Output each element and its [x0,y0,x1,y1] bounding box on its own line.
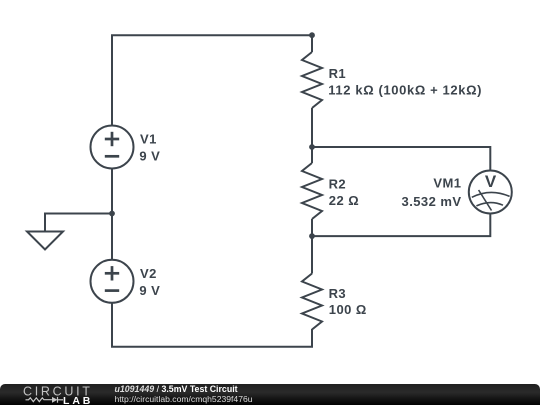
wire node B to R2 [311,147,313,163]
wire bottom [112,303,312,347]
footer info text [115,384,253,405]
node C junction [309,233,315,239]
wire R1 to node B [311,108,313,147]
node B junction [309,144,315,150]
resistor R2 [302,163,322,219]
svg-text:9 V: 9 V [139,283,160,298]
svg-text:LAB: LAB [63,395,93,405]
svg-text:112 kΩ (100kΩ + 12kΩ): 112 kΩ (100kΩ + 12kΩ) [328,82,482,97]
CircuitLab logo [0,384,112,405]
wire top [112,35,312,126]
voltage source V1 [91,126,134,169]
wire ground lead [45,214,112,232]
svg-text:V2: V2 [140,266,157,281]
voltage source V2 [91,260,134,303]
wire VM1 bottom to node C [312,214,490,237]
node A junction [109,211,115,217]
wire node B to VM1 top [312,147,490,171]
ground GND [27,232,63,250]
resistor R3 [302,274,322,330]
voltmeter VM1 [469,171,512,214]
svg-text:VM1: VM1 [433,176,461,191]
wire node A to V2 [111,214,113,261]
footer bar [0,384,540,405]
svg-text:R1: R1 [329,66,347,81]
svg-text:22 Ω: 22 Ω [329,193,359,208]
node top-right junction [309,32,315,38]
logo diode [52,397,58,403]
svg-text:9 V: 9 V [139,149,160,164]
wire node C to R3 [311,236,313,273]
svg-text:V1: V1 [140,132,157,147]
svg-text:R3: R3 [329,286,347,301]
wire V1 to node A [111,168,113,214]
logo resistor zigzag [26,397,64,403]
svg-text:V: V [485,172,497,191]
svg-text:100 Ω: 100 Ω [329,302,367,317]
resistor R1 [302,52,322,108]
wire R2 to node C [311,219,313,236]
svg-text:3.532 mV: 3.532 mV [402,194,462,209]
svg-text:R2: R2 [329,177,347,192]
